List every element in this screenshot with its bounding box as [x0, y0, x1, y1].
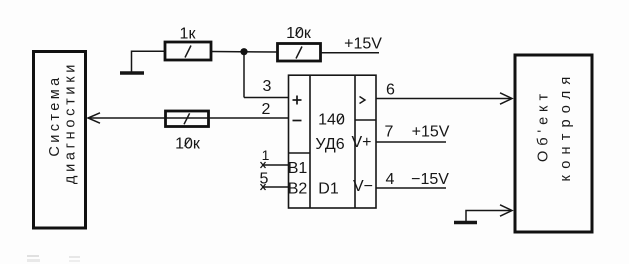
svg-text:7: 7	[385, 124, 394, 141]
svg-text:140: 140	[318, 112, 345, 129]
svg-text:V+: V+	[351, 134, 371, 151]
svg-text:B1: B1	[288, 160, 308, 177]
svg-text:диагностики: диагностики	[63, 61, 79, 184]
svg-text:−15V: −15V	[411, 171, 449, 188]
svg-text:Система: Система	[47, 74, 63, 156]
svg-text:10к: 10к	[286, 25, 312, 42]
svg-text:4: 4	[386, 171, 395, 188]
svg-text:2: 2	[262, 101, 271, 118]
svg-text:Об'ект: Об'ект	[536, 89, 552, 162]
svg-text:6: 6	[386, 82, 395, 99]
svg-text:3: 3	[263, 78, 272, 95]
svg-text:V−: V−	[353, 178, 373, 195]
svg-text:5: 5	[260, 171, 269, 188]
svg-text:1: 1	[262, 147, 270, 163]
svg-text:+15V: +15V	[344, 36, 382, 53]
svg-text:1к: 1к	[180, 26, 197, 43]
svg-text:D1: D1	[318, 181, 339, 198]
svg-text:+15V: +15V	[412, 124, 450, 141]
svg-text:УД6: УД6	[315, 136, 344, 153]
svg-text:контроля: контроля	[558, 71, 574, 182]
svg-text:B2: B2	[288, 181, 308, 198]
svg-text:10к: 10к	[175, 136, 201, 153]
